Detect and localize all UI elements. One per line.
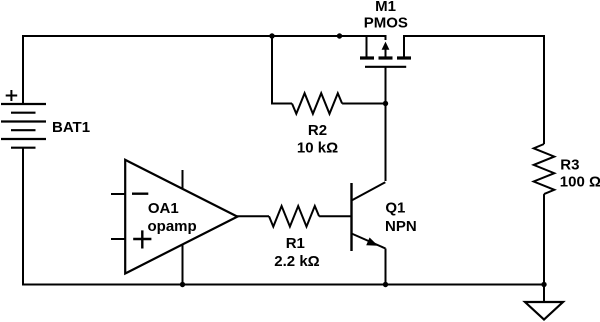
M1 gate lead — [385, 67, 387, 104]
node: gate-collector junction — [383, 101, 388, 106]
M1 drain contact riser — [403, 36, 405, 57]
resistor R2 — [292, 93, 342, 114]
OA1 top power pin — [182, 170, 184, 190]
wire: junction down to Q1 collector — [385, 104, 387, 182]
Q1 emitter arrowhead — [366, 238, 378, 246]
battery short plate 1 — [11, 112, 36, 114]
node: rail R2 junction — [269, 33, 274, 38]
svg-text:PMOS: PMOS — [364, 14, 408, 31]
wire: bottom rail — [22, 284, 544, 286]
wire: drain rail to R3 — [403, 36, 544, 144]
Q1 collector diagonal — [352, 182, 386, 200]
M1 source stub from rail — [385, 35, 387, 40]
resistor R3 — [534, 144, 555, 194]
svg-text:opamp: opamp — [148, 218, 197, 235]
node: ground junction — [541, 282, 546, 287]
op-amp OA1 — [111, 160, 237, 285]
transistor M1 PMOS — [360, 35, 411, 104]
M1 source contact drop — [366, 35, 368, 57]
svg-text:R2: R2 — [308, 122, 327, 139]
wire: top rail — [22, 35, 386, 37]
battery short plate 2 — [11, 129, 36, 131]
OA1 non-inverting input stub — [111, 238, 126, 240]
transistor Q1 NPN — [352, 182, 386, 251]
wire: battery negative to bottom rail — [22, 148, 24, 286]
OA1 inverting input stub — [111, 193, 126, 195]
svg-text:R1: R1 — [286, 235, 305, 252]
battery short plate 3 — [11, 147, 36, 149]
M1 body bar — [379, 56, 393, 59]
OA1 plus symbol — [133, 230, 151, 248]
node: emitter ground junction — [383, 282, 388, 287]
battery long plate 3 — [1, 138, 46, 140]
svg-text:R3: R3 — [560, 156, 579, 173]
wire: battery positive to top rail — [22, 36, 24, 104]
svg-text:OA1: OA1 — [148, 200, 179, 217]
Q1 emitter diagonal — [352, 234, 386, 249]
wire: Q1 emitter to ground rail — [385, 249, 387, 285]
M1 source bar — [360, 56, 374, 59]
battery plus sign — [6, 90, 18, 101]
svg-text:100 Ω: 100 Ω — [560, 173, 600, 190]
svg-text:BAT1: BAT1 — [52, 119, 90, 136]
wire: ground stub — [543, 285, 545, 303]
M1 drain bar — [397, 56, 411, 59]
svg-text:Q1: Q1 — [385, 200, 405, 217]
ground — [525, 302, 563, 320]
node: opamp power to ground rail — [180, 282, 185, 287]
svg-text:10 kΩ: 10 kΩ — [297, 139, 338, 156]
OA1 triangle body — [125, 160, 237, 274]
svg-text:M1: M1 — [375, 0, 396, 15]
resistor R1 — [269, 206, 319, 227]
svg-text:2.2 kΩ: 2.2 kΩ — [274, 253, 319, 270]
wire: R3 to ground rail — [543, 194, 545, 284]
wire: R1 to Q1 base — [319, 215, 350, 217]
wire: R2 right to gate node — [342, 103, 385, 105]
Q1 base bar — [350, 183, 352, 251]
OA1 minus symbol — [132, 192, 148, 194]
M1 gate plate — [365, 66, 406, 68]
battery long plate 2 — [1, 120, 46, 122]
wire: R2 left branch from rail — [272, 35, 292, 104]
M1 body arrow — [382, 42, 390, 50]
battery BAT1 — [1, 90, 46, 148]
wire: opamp output to R1 — [236, 215, 269, 217]
node: rail mid junction — [337, 33, 342, 38]
OA1 bottom power pin — [182, 244, 184, 285]
battery long plate 1 — [1, 103, 46, 105]
svg-text:NPN: NPN — [385, 218, 417, 235]
